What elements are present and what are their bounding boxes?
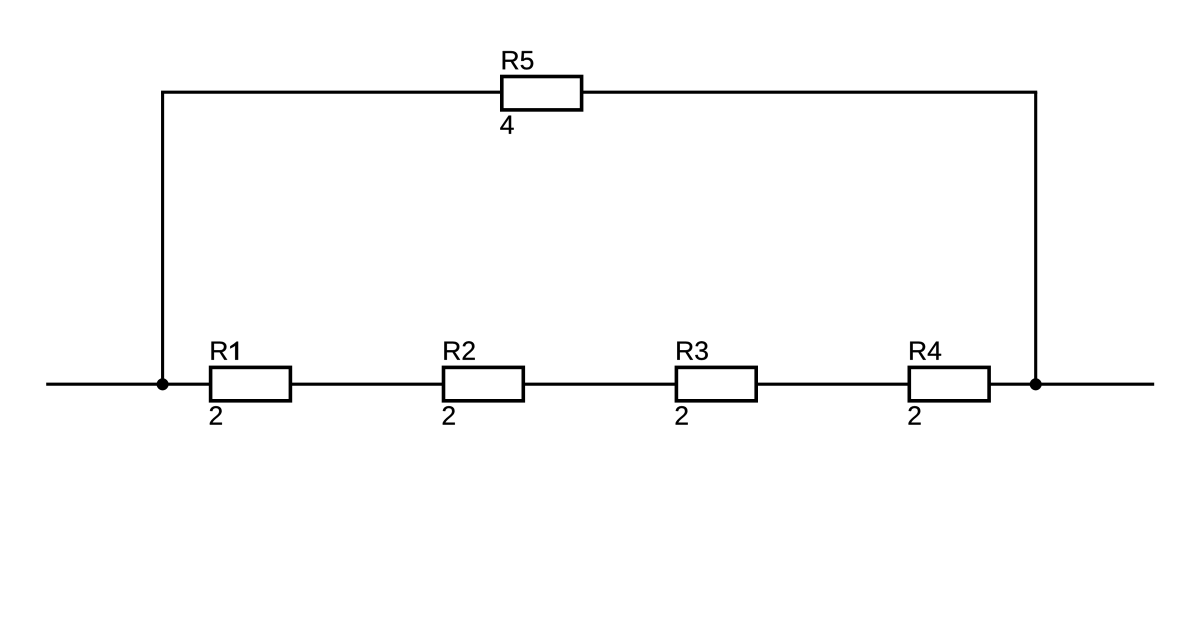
value 2 xyxy=(909,406,921,425)
value 2 xyxy=(676,406,688,425)
node junction right xyxy=(1030,378,1042,390)
label R1 xyxy=(211,342,238,360)
value 2 xyxy=(210,406,222,425)
resistor R1 xyxy=(210,342,291,425)
label R5 xyxy=(503,51,534,69)
label R4 xyxy=(910,342,941,360)
node junction left xyxy=(157,378,169,390)
resistor R5 xyxy=(500,51,581,134)
resistor R3 xyxy=(676,341,757,424)
resistor R2 xyxy=(443,341,524,424)
resistor R3 body xyxy=(676,367,756,400)
wire top horizontal xyxy=(161,91,1037,94)
label R2 xyxy=(444,341,474,360)
value 4 xyxy=(500,116,513,134)
label R3 xyxy=(677,341,708,360)
resistor R2 body xyxy=(444,367,524,400)
resistor R4 body xyxy=(909,367,989,400)
resistor R1 body xyxy=(211,367,291,400)
wire main horizontal xyxy=(46,383,1154,386)
wire right vertical xyxy=(1034,92,1037,384)
resistor R4 xyxy=(909,342,990,425)
wire left vertical xyxy=(161,92,164,384)
value 2 xyxy=(443,406,455,425)
resistor R5 body xyxy=(502,77,582,110)
